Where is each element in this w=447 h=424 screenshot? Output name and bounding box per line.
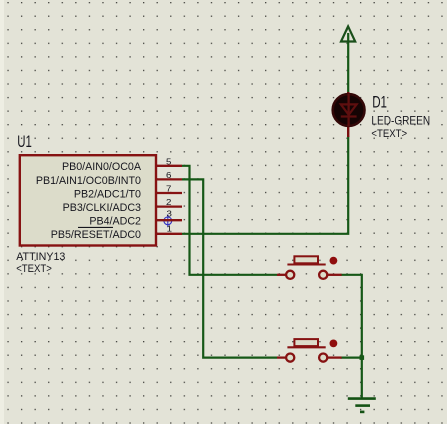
wire button 2 right terminal to ground rail — [341, 357, 362, 359]
IC U1 body (ATTINY13) — [20, 155, 156, 245]
pin 6 stub (PB1) — [156, 178, 182, 180]
svg-text:PB1/AIN1/OC0B/INT0: PB1/AIN1/OC0B/INT0 — [36, 175, 141, 187]
pin 2 stub (PB3) — [156, 205, 182, 207]
push button 1 — [277, 256, 342, 279]
pin 5 stub (PB0) — [156, 165, 182, 167]
svg-text:PB2/ADC1/T0: PB2/ADC1/T0 — [74, 188, 141, 200]
svg-text:<TEXT>: <TEXT> — [371, 128, 407, 140]
svg-text:7: 7 — [166, 185, 171, 194]
svg-text:PB0/AIN0/OC0A: PB0/AIN0/OC0A — [62, 161, 142, 173]
svg-text:D1: D1 — [372, 92, 387, 111]
svg-text:3: 3 — [167, 209, 172, 218]
junction at ground rail and button 2 wire — [360, 355, 365, 360]
svg-text:6: 6 — [166, 171, 171, 180]
power terminal VCC (up arrow) — [341, 26, 355, 41]
svg-text:ATTINY13: ATTINY13 — [16, 251, 65, 263]
svg-text:PB5/RESET/ADC0: PB5/RESET/ADC0 — [51, 229, 141, 241]
svg-text:U1: U1 — [17, 132, 32, 151]
overline on RESET — [78, 226, 113, 228]
push button 2 — [277, 339, 342, 362]
pin 3 stub (PB4) — [156, 219, 182, 221]
svg-text:2: 2 — [166, 198, 171, 207]
svg-text:LED-GREEN: LED-GREEN — [371, 114, 430, 128]
LED D1 (LED-GREEN) — [333, 92, 365, 137]
wire VCC terminal to LED D1 anode — [347, 33, 349, 93]
svg-text:PB3/CLKI/ADC3: PB3/CLKI/ADC3 — [63, 202, 141, 214]
pin 1 stub (PB5) — [156, 233, 182, 235]
pin 7 stub (PB2) — [156, 192, 182, 194]
svg-text:1: 1 — [167, 225, 172, 234]
blue origin marker on pin 3 — [163, 214, 173, 227]
svg-text:<TEXT>: <TEXT> — [16, 263, 52, 275]
ground — [348, 399, 376, 412]
wire U1 pin 5 (PB0) down to button 1 left terminal — [182, 166, 277, 275]
svg-text:PB4/ADC2: PB4/ADC2 — [89, 216, 141, 228]
wire U1 pin 6 (PB1) down to button 2 left terminal — [182, 179, 277, 357]
wire button 1 right terminal down to ground rail — [341, 275, 362, 399]
wire LED D1 cathode down and left to U1 pin 1 (PB5) — [182, 137, 348, 234]
svg-text:5: 5 — [166, 157, 172, 166]
